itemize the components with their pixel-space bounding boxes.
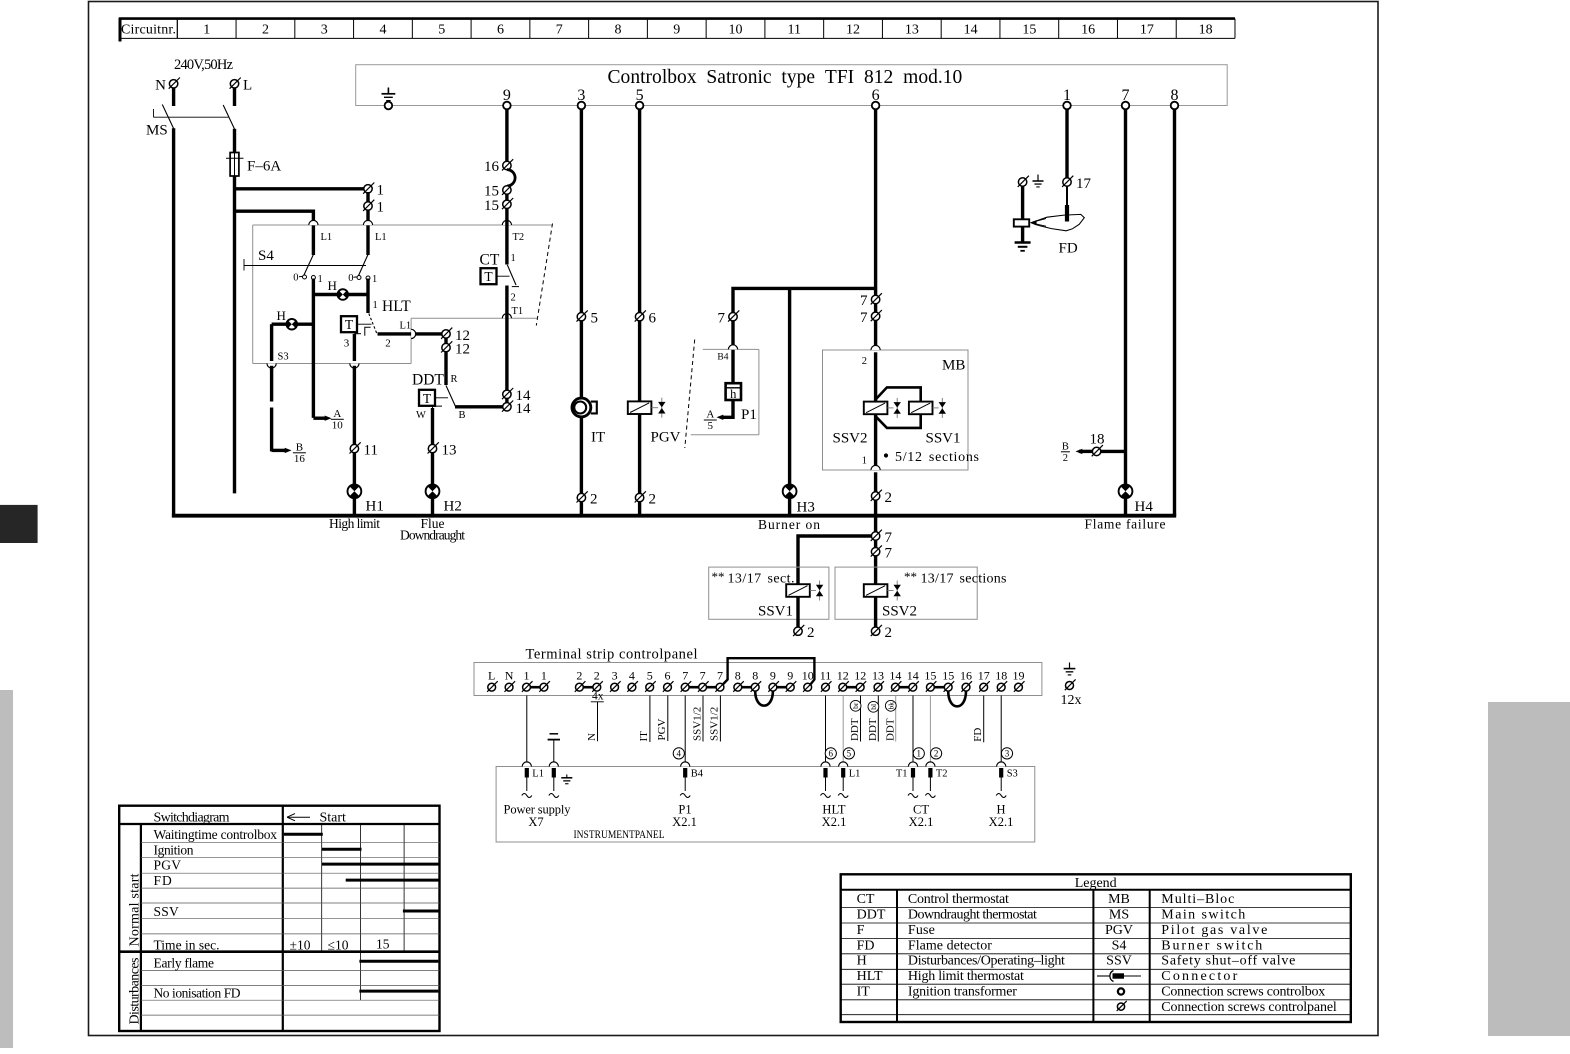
svg-text:13: 13: [872, 669, 884, 683]
svg-text:T: T: [423, 391, 432, 406]
svg-text:MB: MB: [1108, 892, 1130, 907]
svg-text:0: 0: [293, 273, 298, 284]
wire N down to bus: [172, 128, 175, 517]
svg-text:HLT: HLT: [857, 969, 883, 984]
wire strip 14 to panel T1: [912, 696, 914, 765]
wire screw 7 to MB: [874, 321, 877, 347]
controlbox terminal 5: [636, 87, 644, 109]
lamp H2 Flue Downdraught: [426, 484, 462, 514]
wire branch to lamp H3: [788, 288, 791, 485]
strip terminal 11 at x=825.5: [820, 669, 832, 692]
svg-text:CT: CT: [480, 252, 500, 269]
svg-text:7: 7: [718, 311, 726, 327]
svg-text:1: 1: [318, 274, 323, 285]
circuit numbers 1-18: [203, 23, 1212, 38]
legend entry IT: [857, 984, 1018, 999]
svg-text:S3: S3: [278, 352, 289, 363]
safety shut-off valve SSV2 (multi-bloc): [833, 398, 901, 447]
svg-text:11: 11: [788, 23, 801, 38]
right margin gray bar: [1488, 702, 1570, 1036]
svg-text:13/17 sections: 13/17 sections: [921, 572, 1007, 587]
strip terminal 7 at x=702.6: [698, 669, 709, 692]
screw 7 (P1): [718, 310, 740, 326]
svg-text:L1: L1: [532, 769, 544, 780]
wire screw 2 to bus: [638, 502, 641, 516]
connector boundary dashed line near P1: [685, 340, 695, 449]
strip link 14-14: [899, 686, 908, 689]
svg-text:14: 14: [964, 23, 978, 38]
legend entry S4: [1112, 938, 1263, 953]
svg-text:IT: IT: [638, 731, 650, 742]
panel pin T2: [925, 762, 947, 798]
svg-text:H2: H2: [444, 499, 462, 515]
strip terminal 10 at x=807.7: [802, 669, 814, 692]
ignition transformer IT: [572, 398, 605, 445]
controlbox terminal 1: [1063, 87, 1071, 109]
svg-text:2: 2: [385, 338, 391, 350]
screw 7 upper (MB column): [860, 293, 882, 309]
svg-text:2: 2: [576, 669, 582, 683]
wire N stub: [172, 88, 175, 106]
strip jumper 15 to 16 (loop below): [948, 691, 966, 706]
wire screw 15 to CT: [505, 209, 508, 265]
svg-text:18: 18: [1199, 23, 1213, 38]
circled 1: [913, 748, 924, 759]
strip terminal 3 at x=614.6: [610, 669, 621, 692]
svg-text:Early flame: Early flame: [154, 956, 215, 971]
svg-text:12: 12: [846, 23, 860, 38]
timing bar PGV: [322, 863, 440, 866]
strip terminal 4 at x=631.9: [627, 669, 638, 692]
svg-text:2: 2: [885, 490, 893, 506]
earth terminal FD: [1018, 175, 1044, 187]
svg-text:8: 8: [752, 669, 758, 683]
wire photoresistor to earth: [1021, 227, 1024, 242]
svg-text:15: 15: [484, 198, 499, 214]
svg-text:MS: MS: [1109, 908, 1129, 923]
svg-text:High limit thermostat: High limit thermostat: [908, 969, 1024, 984]
legend entry FD: [857, 938, 993, 953]
strip terminal 19 at x=1018.5: [1013, 669, 1025, 692]
svg-text:Disturbances/Operating–light: Disturbances/Operating–light: [908, 954, 1065, 969]
svg-text:4: 4: [629, 669, 635, 683]
wire between screws 7 below bus: [874, 540, 877, 547]
svg-text:Ignition transformer: Ignition transformer: [908, 984, 1017, 999]
strip terminal 15 at x=930.4: [924, 669, 936, 692]
node B4 hop: [717, 345, 737, 363]
svg-text:PGV: PGV: [154, 858, 182, 873]
safety shut-off valve SSV1 (13/17): [758, 581, 823, 620]
wire strip 7 label SSV1/2: [691, 696, 703, 742]
main switch MS: [146, 105, 235, 139]
panel pin earth power supply: [549, 762, 573, 798]
svg-text:S4: S4: [1112, 938, 1127, 953]
svg-text:2: 2: [649, 492, 657, 508]
strip link 12-12: [847, 686, 856, 689]
wire CT contact 2 down to screw 14: [505, 286, 508, 391]
legend entry SSV: [1106, 954, 1295, 969]
svg-text:7: 7: [700, 669, 706, 683]
timing bar FD: [346, 879, 440, 882]
svg-text:SSV1/2: SSV1/2: [709, 707, 721, 741]
svg-text:Ignition: Ignition: [154, 843, 194, 858]
svg-text:1: 1: [377, 200, 385, 216]
wire H2 to bus: [431, 498, 434, 516]
svg-text:7: 7: [556, 23, 563, 38]
screw 2 (IT column): [577, 491, 598, 507]
wire S4 pole B lower to HLT: [366, 279, 369, 314]
svg-text:**: **: [904, 569, 917, 584]
screw 18: [1090, 432, 1105, 457]
lamp H3 Burner on: [783, 484, 815, 515]
wire lamp row upper: [313, 293, 368, 296]
connector HLT X2.1: [822, 803, 847, 830]
earth wire to panel pin: [548, 734, 560, 764]
wire SSV2 coil to MB bottom: [862, 414, 876, 467]
terminal N: [155, 78, 180, 94]
svg-text:CT: CT: [857, 892, 875, 907]
S4 enclosure box: [253, 225, 552, 364]
strip terminal 9 at x=772.9: [768, 669, 779, 692]
rotated label Disturbances: [128, 958, 143, 1025]
legend entry connector symbol: [1097, 969, 1238, 984]
svg-text:FD: FD: [154, 873, 173, 888]
caption Flame failure: [1085, 517, 1166, 532]
svg-text:17: 17: [978, 669, 990, 683]
wire screw 17 into flame detector: [1066, 186, 1068, 221]
wire H3 to bus: [788, 498, 791, 516]
svg-text:**: **: [712, 569, 725, 584]
svg-text:T2: T2: [936, 769, 948, 780]
svg-text:PGV: PGV: [1105, 923, 1133, 938]
svg-text:H: H: [328, 278, 337, 293]
svg-text:N: N: [505, 669, 514, 683]
svg-text:7: 7: [885, 530, 893, 546]
svg-text:FD: FD: [972, 728, 984, 742]
svg-text:H3: H3: [797, 500, 815, 516]
controlbox terminal 9: [503, 87, 511, 109]
wire terminal 3 down: [580, 109, 583, 313]
svg-text:5: 5: [647, 669, 653, 683]
svg-text:X2.1: X2.1: [672, 815, 697, 829]
wire strip 5 label IT: [638, 696, 650, 743]
svg-text:7: 7: [717, 669, 723, 683]
controlbox outline U1: [356, 65, 1227, 106]
svg-text:Downdraught: Downdraught: [400, 528, 465, 543]
legend entry DDT: [857, 908, 1037, 923]
wire H to S3 node: [270, 324, 273, 361]
svg-text:5: 5: [438, 23, 445, 38]
timing bar ignition: [322, 848, 362, 851]
svg-text:N: N: [155, 78, 166, 94]
wire strip 2 group 4x N: [586, 691, 604, 742]
wire terminal 9 down: [505, 109, 508, 162]
screw 7 lower (below bus): [871, 545, 893, 561]
svg-text:FD: FD: [857, 938, 875, 953]
screw 6: [635, 310, 657, 326]
high limit thermostat HLT: [341, 298, 411, 350]
wire to photoresistor: [1021, 186, 1024, 219]
circuit number header table: [119, 18, 1235, 42]
svg-text:L1: L1: [375, 232, 387, 243]
screw 13: [428, 442, 457, 458]
switchdiagram row label: [154, 904, 179, 919]
svg-text:10: 10: [729, 23, 743, 38]
wire screw 6 to PGV: [638, 321, 641, 401]
strip terminal 17 at x=983.7: [978, 669, 990, 692]
svg-text:9: 9: [770, 669, 776, 683]
svg-text:No ionisation FD: No ionisation FD: [154, 986, 241, 1001]
svg-text:0: 0: [348, 273, 353, 284]
svg-text:4x: 4x: [592, 691, 604, 703]
svg-text:B: B: [296, 442, 303, 454]
svg-text:8: 8: [735, 669, 741, 683]
circled 3: [1001, 748, 1012, 759]
svg-text:DDT: DDT: [857, 908, 886, 923]
jumper arc 16 to 15: [507, 170, 515, 186]
svg-text:8: 8: [615, 23, 622, 38]
svg-text:1: 1: [862, 456, 867, 467]
svg-text:17: 17: [1076, 176, 1092, 192]
hop at S4 box bottom: [350, 364, 359, 369]
panel pin B4: [680, 762, 704, 798]
strip terminal 13 at x=878.0: [872, 669, 884, 692]
strip terminal 8 at x=755.2: [751, 669, 762, 692]
svg-text:SSV1: SSV1: [926, 431, 961, 447]
wire MB node 2 to SSV2 coil: [874, 352, 877, 401]
strip jumper 7 to 10: [723, 658, 815, 684]
legend entry MB: [1108, 892, 1234, 907]
svg-text:H4: H4: [1135, 499, 1154, 515]
node T1 hop: [502, 314, 511, 319]
svg-text:12x: 12x: [1061, 693, 1082, 708]
svg-text:Safety shut–off valve: Safety shut–off valve: [1161, 954, 1295, 969]
node T2 hop (CT): [502, 220, 524, 243]
strip terminal 8 at x=737.8: [733, 669, 744, 692]
svg-text:IT: IT: [857, 984, 871, 999]
svg-text:15: 15: [942, 669, 954, 683]
svg-text:9: 9: [787, 669, 793, 683]
SSV2 13/17 enclosure: [835, 567, 977, 619]
strip link 2-2: [583, 686, 592, 689]
svg-text:Legend: Legend: [1075, 876, 1117, 891]
controlbox terminal 3: [577, 87, 585, 109]
control thermostat CT: [480, 252, 524, 318]
svg-text:bk: bk: [886, 702, 895, 710]
node 1 hop MB bottom: [871, 465, 880, 470]
node L1 hop (S4 pole B): [363, 220, 386, 243]
svg-text:12: 12: [854, 669, 866, 683]
svg-text:P1: P1: [741, 407, 757, 423]
svg-text:IT: IT: [591, 430, 605, 446]
svg-text:4: 4: [379, 23, 386, 38]
strip terminal 15 at x=948.2: [942, 669, 954, 692]
svg-text:T: T: [345, 317, 354, 332]
svg-text:5: 5: [847, 749, 852, 759]
svg-text:R: R: [451, 374, 458, 385]
svg-text:6: 6: [665, 669, 671, 683]
svg-text:Burner switch: Burner switch: [1161, 938, 1262, 953]
svg-text:4: 4: [677, 749, 682, 759]
svg-text:MS: MS: [146, 123, 168, 139]
svg-text:Waitingtime controlbox: Waitingtime controlbox: [154, 827, 278, 842]
wire lamp row lower: [272, 323, 314, 326]
lamp H1 High limit: [348, 484, 384, 514]
wire fuse branch to screws 1: [235, 187, 369, 190]
lamp H4 Flame failure: [1119, 484, 1154, 515]
operating light H lower: [277, 308, 298, 330]
circled 5: [843, 748, 854, 759]
wire between screws 14: [505, 398, 508, 402]
strip link 8-8: [742, 686, 751, 689]
svg-text:6: 6: [497, 23, 504, 38]
wire screw 2 through bus: [874, 500, 877, 532]
wire branch terminal 6 to P1: [733, 288, 876, 312]
wire S4 pole A lower: [312, 279, 315, 418]
strip terminal 14 at x=912.8: [907, 669, 919, 692]
svg-text:13/17 sect.: 13/17 sect.: [728, 572, 795, 587]
svg-text:Flame failure: Flame failure: [1085, 517, 1166, 532]
svg-text:T1: T1: [896, 769, 908, 780]
wire screw 11 to lamp H1: [353, 453, 356, 485]
wire between screws 7: [874, 304, 877, 313]
svg-text:S3: S3: [1007, 769, 1018, 780]
pilot gas valve PGV: [628, 398, 681, 446]
screw 7 upper (below bus): [871, 530, 893, 546]
svg-text:Start: Start: [320, 811, 347, 826]
legend entry H: [857, 954, 1065, 969]
controlbox terminal 7: [1122, 87, 1130, 109]
svg-text:Circuitnr.: Circuitnr.: [121, 23, 176, 38]
wire strip 13 label DDT bl: [867, 696, 879, 742]
panel pin S3: [996, 762, 1018, 798]
wire strip 12 to panel L1: [842, 696, 844, 765]
caption High limit: [329, 516, 380, 531]
screw 2 (SSV2): [871, 625, 892, 641]
svg-text:7: 7: [682, 669, 688, 683]
svg-text:9: 9: [673, 23, 680, 38]
strip link 15-15: [934, 686, 944, 689]
caption Burner on: [758, 517, 820, 532]
safety shut-off valve SSV1 (multi-bloc): [909, 398, 961, 447]
svg-text:16: 16: [294, 453, 306, 465]
wire strip 6 label PGV: [656, 696, 668, 742]
svg-text:16: 16: [484, 159, 500, 175]
switchdiagram row label: [154, 986, 241, 1001]
screw 12 upper: [441, 328, 470, 344]
svg-text:1: 1: [524, 669, 530, 683]
screw 11: [350, 442, 378, 458]
switchdiagram row label: [154, 873, 173, 888]
svg-text:2: 2: [590, 492, 598, 508]
svg-text:13: 13: [442, 443, 457, 459]
strip terminal N at x=509.1: [505, 669, 516, 692]
svg-text:7: 7: [860, 310, 868, 326]
note ** 13/17 sections: [904, 569, 1007, 587]
screw 7 lower (MB column): [860, 310, 882, 326]
svg-text:br: br: [851, 702, 860, 709]
svg-text:B: B: [458, 410, 465, 421]
wire strip 12 label DDT br: [849, 696, 861, 742]
left margin gray band: [0, 690, 13, 1048]
svg-text:T1: T1: [512, 306, 524, 317]
wire terminal 6 down: [874, 109, 877, 295]
svg-text:SSV: SSV: [154, 904, 179, 919]
svg-text:5: 5: [708, 420, 714, 432]
svg-text:15: 15: [1022, 23, 1036, 38]
svg-text:2: 2: [807, 625, 815, 641]
svg-text:F–6A: F–6A: [247, 159, 281, 175]
strip terminal 6 at x=667.5: [663, 669, 674, 692]
strip terminal 14 at x=895.4: [889, 669, 901, 692]
wire fuse down to node 2 and bus: [233, 176, 236, 493]
svg-text:11: 11: [820, 669, 832, 683]
strip terminal 5 at x=649.7: [645, 669, 656, 692]
svg-text:1: 1: [372, 274, 377, 285]
SSV1 13/17 enclosure: [709, 567, 829, 619]
note ** 13/17 sect.: [712, 569, 795, 587]
timing bar SSV: [403, 910, 440, 913]
svg-text:Switchdiagram: Switchdiagram: [154, 811, 230, 826]
wire h to A/5 arrow: [717, 400, 734, 420]
svg-text:Controlbox Satronic type TF: Controlbox Satronic type TFI 812 mod.10: [608, 67, 963, 88]
circled 6: [825, 748, 836, 759]
svg-text:Normal start: Normal start: [128, 873, 143, 946]
svg-text:bl: bl: [869, 704, 878, 710]
svg-text:2: 2: [862, 356, 867, 367]
svg-text:Time in sec.: Time in sec.: [154, 938, 220, 953]
P1 enclosure: [691, 349, 759, 434]
svg-text:15: 15: [924, 669, 936, 683]
downdraught thermostat DDT: [412, 372, 466, 422]
panel pin HLT left: [821, 762, 831, 798]
svg-text:X2.1: X2.1: [822, 815, 847, 829]
screw 1 lower: [363, 200, 384, 216]
svg-text:1: 1: [541, 669, 547, 683]
caption Terminal strip controlpanel: [526, 647, 698, 663]
svg-text:2: 2: [934, 749, 939, 759]
strip terminal 7 at x=720.0: [715, 669, 726, 692]
svg-text:16: 16: [960, 669, 972, 683]
screw 2 (SSV1): [793, 625, 814, 641]
strip link 7-7-7: [689, 686, 716, 689]
wire branch to S4 pole L1: [235, 211, 314, 255]
wire B/2 branch with screw 18: [1076, 449, 1126, 454]
svg-text:Terminal strip controlpanel: Terminal strip controlpanel: [526, 647, 698, 663]
burner switch S4: [244, 248, 377, 285]
neutral bus wire: [172, 514, 1176, 518]
svg-text:Burner on: Burner on: [758, 517, 820, 532]
svg-text:B4: B4: [691, 769, 704, 780]
safety shut-off valve SSV2 (13/17): [864, 581, 917, 620]
screw 2 (MB column): [871, 490, 892, 506]
strip terminal L at x=491.7: [487, 669, 498, 692]
strip terminal 12 at x=860.2: [854, 669, 866, 692]
svg-text:14: 14: [907, 669, 919, 683]
svg-text:17: 17: [1140, 23, 1154, 38]
svg-text:INSTRUMENTPANEL: INSTRUMENTPANEL: [574, 829, 665, 841]
flame detector FD flame shape: [1030, 214, 1085, 256]
svg-text:A: A: [706, 409, 714, 421]
legend table frame: [841, 874, 1351, 1022]
wire HLT contact 2 to screw 12: [378, 332, 442, 335]
circled 4: [673, 748, 684, 759]
svg-text:X2.1: X2.1: [909, 815, 934, 829]
svg-text:L1: L1: [321, 232, 333, 243]
svg-text:6: 6: [829, 749, 834, 759]
hour counter h P1: [726, 383, 757, 423]
controlbox earth terminal: [382, 88, 396, 110]
